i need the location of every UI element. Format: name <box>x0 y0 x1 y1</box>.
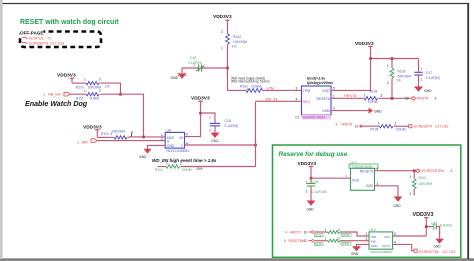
svg-text:2: 2 <box>381 93 383 97</box>
svg-text:10KOHM: 10KOHM <box>112 130 126 134</box>
svg-text:R114: R114 <box>155 168 163 172</box>
svg-text:2: 2 <box>99 89 101 93</box>
svg-text:1UF/16V: 1UF/16V <box>440 223 454 227</box>
svg-text:WDI internal pull-up 51ohm: WDI internal pull-up 51ohm <box>231 80 270 84</box>
wire R109 to U12 INA <box>340 240 369 242</box>
svg-text:U17,U16: U17,U16 <box>435 125 448 129</box>
svg-text:GND: GND <box>394 204 402 208</box>
svg-text:VDD: VDD <box>322 89 330 93</box>
svg-text:GND: GND <box>322 109 330 113</box>
wire R105 to ECRESET# <box>394 125 449 129</box>
wire U13 GND to ground <box>375 186 399 197</box>
ground at C42 <box>434 239 445 249</box>
ground at C18 <box>210 133 219 143</box>
pin 5 of U9 <box>333 86 335 90</box>
junction node C18 tap <box>199 112 202 115</box>
svg-text:OUTY: OUTY <box>382 244 390 248</box>
wire HB_EN row to U8 pin1 <box>100 94 166 137</box>
svg-text:GND: GND <box>371 244 379 248</box>
wire tap to C18 <box>201 113 216 123</box>
wire R107 to U9 pin3, net LPM <box>263 86 302 90</box>
svg-text:T2: T2 <box>47 36 51 40</box>
svg-text:VDD3V3: VDD3V3 <box>57 73 76 79</box>
debug reserve box <box>273 145 461 257</box>
svg-text:GND: GND <box>434 245 442 249</box>
svg-text:RESET#: RESET# <box>360 170 373 174</box>
net RESETB# debug input <box>284 239 328 243</box>
supervisor U13 body <box>349 161 379 191</box>
resistor R106 0OHM (horizontal, NC) <box>315 228 352 237</box>
junction node R110/HB_EN row <box>119 93 122 96</box>
svg-text:VDD3V3: VDD3V3 <box>413 212 434 218</box>
svg-text:RESET#: RESET# <box>316 97 330 101</box>
svg-text:10: 10 <box>355 124 359 128</box>
svg-text:2: 2 <box>180 162 182 166</box>
svg-text:V5: V5 <box>179 136 183 140</box>
wire VDD3V3 to R113 <box>97 136 114 138</box>
svg-text:2: 2 <box>451 169 453 173</box>
svg-text:U9: U9 <box>295 116 299 120</box>
svg-text:U17,U16: U17,U16 <box>50 42 64 46</box>
net HRST# debug input <box>286 230 328 234</box>
svg-text:1: 1 <box>166 162 168 166</box>
svg-text:0.1UF/16V: 0.1UF/16V <box>312 190 329 194</box>
power VDD3V3 (debug top) <box>298 161 317 178</box>
capacitor C40 0.1UF/16V (NC) <box>306 178 329 200</box>
wire R106 to U12 INB <box>340 232 369 236</box>
svg-text:1: 1 <box>209 116 211 120</box>
svg-text:U8: U8 <box>167 128 171 132</box>
wire U9 GND pin to ground arrow <box>331 107 369 111</box>
svg-text:VDD3V3: VDD3V3 <box>298 161 317 167</box>
svg-text:R103: R103 <box>398 69 406 73</box>
svg-text:HB_EN: HB_EN <box>48 93 61 97</box>
net WD_EN off-page input <box>77 139 97 145</box>
svg-text:1%: 1% <box>396 79 401 83</box>
svg-text:2: 2 <box>338 228 340 232</box>
svg-text:VCC: VCC <box>384 235 391 239</box>
wire U13 RESET# output <box>375 170 415 172</box>
svg-text:2: 2 <box>421 78 423 82</box>
svg-text:2: 2 <box>338 237 340 241</box>
svg-text:C18: C18 <box>225 119 231 123</box>
svg-text:ECSPO1: ECSPO1 <box>29 36 44 40</box>
resistor R102 10KOHM 1% (vertical) <box>221 30 247 51</box>
svg-text:R109: R109 <box>315 243 322 246</box>
note: watchdog timing above U9 <box>307 77 333 85</box>
svg-text:WD: WD <box>82 140 89 144</box>
svg-text:LPM: LPM <box>267 86 274 90</box>
capacitor C18 0.1UF <box>209 116 238 133</box>
capacitor C17 0.1UF(NC) <box>414 67 439 87</box>
svg-text:GND: GND <box>365 184 373 188</box>
svg-text:0OHM: 0OHM <box>396 128 406 132</box>
wire VDD3V3 to R102 <box>227 23 229 34</box>
wire rail down to U9 VDD pin <box>331 59 371 91</box>
svg-text:2: 2 <box>410 192 412 196</box>
svg-text:2: 2 <box>306 190 308 194</box>
svg-text:INA: INA <box>371 240 376 244</box>
svg-text:1: 1 <box>366 232 368 236</box>
svg-text:U12: U12 <box>370 228 376 232</box>
svg-text:2: 2 <box>346 174 348 178</box>
svg-text:11: 11 <box>304 239 308 243</box>
power VDD3V3 (debug bottom) <box>413 212 434 236</box>
wire WD_EN to U8 pin2 <box>97 140 165 142</box>
svg-text:1%: 1% <box>232 45 237 49</box>
svg-text:RESET with watch dog circuit: RESET with watch dog circuit <box>20 19 119 26</box>
wire R113 to pin1 node with hook <box>128 132 144 138</box>
svg-text:GND: GND <box>424 89 432 93</box>
svg-text:ECRESET#: ECRESET# <box>29 42 48 46</box>
wire VDD3V3 to R110 <box>72 82 86 84</box>
junction node rail at R103 <box>391 57 394 60</box>
svg-text:R113: R113 <box>101 132 109 136</box>
off-page connector box (dashed) <box>20 30 102 48</box>
note: WDI text <box>231 76 270 83</box>
svg-text:0OHM: 0OHM <box>342 234 349 237</box>
title: RESET with watch dog circuit <box>20 19 119 26</box>
net ECSPO1 off-page stub <box>22 36 51 40</box>
svg-text:1: 1 <box>77 140 79 144</box>
wire net WD_IN into U9 pin4 <box>256 97 302 101</box>
svg-text:WD_IN: WD_IN <box>266 97 278 101</box>
svg-text:1: 1 <box>221 47 223 51</box>
wire right power rail <box>371 58 419 60</box>
power VDD3V3 (right rail) <box>355 41 374 59</box>
junction node rail left <box>369 57 372 60</box>
ground arrow at U9 GND <box>369 108 383 114</box>
capacitor C42 1UF/16V (NC) <box>426 222 453 239</box>
svg-text:1%: 1% <box>105 85 110 89</box>
logic gate U12 body <box>366 228 397 249</box>
svg-text:GND: GND <box>351 252 359 256</box>
svg-text:VDD: VDD <box>352 178 360 182</box>
svg-text:0.1UF(N): 0.1UF(N) <box>426 76 440 80</box>
resistor R109 0OHM (horizontal, NC) <box>315 237 352 246</box>
wire R104 to HRST# off-page <box>379 97 411 99</box>
resistor R110 10KOHM 1% (horizontal) <box>76 78 109 90</box>
svg-text:U17,U16: U17,U16 <box>443 250 456 254</box>
svg-text:4: 4 <box>286 230 288 234</box>
resistor R103 10KOHM 1% (vertical, NC) <box>387 59 411 99</box>
svg-text:Enable Watch Dog: Enable Watch Dog <box>25 100 88 108</box>
svg-text:ECRESET#: ECRESET# <box>414 125 432 129</box>
net ECRESET# off-page stub <box>22 42 64 46</box>
svg-text:R105: R105 <box>371 128 379 132</box>
svg-text:INB: INB <box>371 235 376 239</box>
svg-text:3: 3 <box>296 86 298 90</box>
resistor R112 10KOHM (vertical, NC) <box>410 171 433 196</box>
svg-text:1: 1 <box>84 89 86 93</box>
ground at C19 <box>171 68 187 80</box>
svg-text:0.1UF(N): 0.1UF(N) <box>225 124 239 128</box>
svg-text:1: 1 <box>333 94 335 98</box>
U8 part number <box>166 149 191 153</box>
svg-text:2: 2 <box>387 81 389 85</box>
svg-text:R112: R112 <box>419 176 427 180</box>
wire U8 VCC to VDD3V3 rail <box>185 101 201 137</box>
svg-text:3: 3 <box>377 182 379 186</box>
junction node C42 tap <box>425 225 428 228</box>
capacitor C19 0.1UF(NC) <box>182 56 228 72</box>
svg-text:RESETB#: RESETB# <box>288 239 304 243</box>
svg-text:GND: GND <box>211 139 219 143</box>
svg-text:2: 2 <box>99 78 101 82</box>
svg-text:GND: GND <box>139 155 147 159</box>
ground at U12 <box>351 246 361 256</box>
svg-text:1: 1 <box>378 122 380 126</box>
power VDD3V3 (top, feeds R102) <box>213 14 232 24</box>
wire net HRST# to R105 row <box>336 122 380 128</box>
svg-text:C19: C19 <box>190 56 196 60</box>
resistor R104 0OHM (horizontal) <box>364 89 383 104</box>
svg-text:5: 5 <box>186 133 188 137</box>
svg-text:t(delay)>200ms: t(delay)>200ms <box>307 81 333 85</box>
svg-text:C17: C17 <box>426 71 432 75</box>
svg-text:10: 10 <box>405 97 409 101</box>
svg-text:1: 1 <box>387 64 389 68</box>
net HRST# off-page output <box>405 97 437 101</box>
svg-text:4: 4 <box>336 122 338 126</box>
svg-text:4: 4 <box>296 97 298 101</box>
U9 reference and part number <box>295 115 331 120</box>
svg-text:6: 6 <box>284 239 286 243</box>
wire rail to C17 <box>418 59 420 72</box>
svg-text:HRST#: HRST# <box>417 97 429 101</box>
svg-text:R106: R106 <box>315 234 322 237</box>
svg-text:3: 3 <box>366 237 368 241</box>
resistor R105 0OHM (horizontal) <box>371 122 406 132</box>
svg-text:1: 1 <box>364 93 366 97</box>
wire VDD to U13 VDD pin <box>311 174 351 178</box>
junction node at C19 tap <box>226 67 229 70</box>
svg-text:R110: R110 <box>76 85 84 89</box>
svg-text:0OHM: 0OHM <box>368 100 378 104</box>
svg-text:10: 10 <box>304 230 308 234</box>
svg-text:5: 5 <box>333 86 335 90</box>
svg-text:1: 1 <box>421 67 423 71</box>
op-amp U9 watchdog IC body <box>302 86 332 115</box>
svg-text:VDD3V3: VDD3V3 <box>213 14 232 20</box>
ground at C40 <box>307 201 316 212</box>
resistor R107 0OHM (horizontal) <box>240 84 263 92</box>
junction node R103 pull-up on HRST# <box>391 97 394 100</box>
wire VDD to U12 VCC <box>393 235 427 237</box>
svg-text:2: 2 <box>161 137 163 141</box>
power VDD3V3 (left, feeds R110) <box>57 73 76 84</box>
ground at U8 <box>139 149 151 160</box>
svg-text:40%: 40% <box>196 167 203 171</box>
note: WD_EN high event time <box>152 158 217 163</box>
svg-text:R111: R111 <box>76 96 84 100</box>
svg-text:WDI: WDI <box>303 100 310 104</box>
wire HB_EN to R111 <box>70 93 86 95</box>
svg-text:1: 1 <box>410 175 412 179</box>
svg-text:GND: GND <box>167 144 175 148</box>
label: Enable Watch Dog <box>25 100 88 108</box>
svg-text:1: 1 <box>43 93 45 97</box>
wire U8 GND pin to ground <box>148 145 166 148</box>
wire U12 GND to ground <box>357 244 370 246</box>
power VDD3V3 (above U8) <box>191 96 210 106</box>
power VDD3V3 (feeds R113 pull-up) <box>83 124 102 137</box>
svg-text:0OHM: 0OHM <box>182 168 192 172</box>
svg-text:2: 2 <box>221 30 223 34</box>
svg-text:0OHM: 0OHM <box>252 84 262 88</box>
wire R110 to junction on HB_EN row <box>100 83 121 94</box>
svg-text:1: 1 <box>325 237 327 241</box>
junction node VDD/C40 <box>310 177 313 180</box>
svg-text:ECRESETB#: ECRESETB# <box>422 169 445 173</box>
svg-text:HRST#: HRST# <box>341 122 352 126</box>
wire R102 down to node, then to R107 row <box>228 45 247 91</box>
svg-text:2: 2 <box>395 122 397 126</box>
resistor R111 0OHM (horizontal) <box>76 89 101 101</box>
svg-text:GND: GND <box>374 109 382 113</box>
svg-text:WD_EN high event time > 1.6s: WD_EN high event time > 1.6s <box>152 158 217 163</box>
svg-text:ECRESETB#: ECRESETB# <box>419 250 439 254</box>
svg-text:Reserve for debug use: Reserve for debug use <box>279 151 348 158</box>
logic gate U8 body <box>161 128 188 148</box>
svg-text:GND: GND <box>307 208 315 212</box>
svg-text:R102: R102 <box>233 35 241 39</box>
net HB_EN off-page input <box>43 92 70 96</box>
wire vertical WD_IN riser <box>255 101 257 166</box>
net ECRESETB# off-page (debug top) <box>416 169 453 173</box>
svg-text:1: 1 <box>325 228 327 232</box>
svg-text:0OHM: 0OHM <box>90 96 100 100</box>
junction node at U8 pin1 feed <box>142 136 145 139</box>
svg-text:10KOHM: 10KOHM <box>419 182 433 186</box>
svg-text:2: 2 <box>333 107 335 111</box>
U12 part number <box>370 250 394 254</box>
svg-text:5: 5 <box>394 232 396 236</box>
svg-text:HRST#: HRST# <box>290 230 301 234</box>
wire U8 Y output to WD_IN node <box>185 144 256 146</box>
svg-text:1: 1 <box>204 63 206 67</box>
junction node R112 on output <box>413 169 416 172</box>
wire U12 OUTY to ECRESETB# <box>393 244 456 254</box>
svg-text:HRST#: HRST# <box>344 94 357 98</box>
svg-text:10KOHM: 10KOHM <box>233 40 247 44</box>
svg-text:3: 3 <box>435 97 437 101</box>
svg-text:LPM: LPM <box>303 89 310 93</box>
svg-text:0OHM: 0OHM <box>342 243 349 246</box>
svg-text:2: 2 <box>194 63 196 67</box>
svg-text:2: 2 <box>209 129 211 133</box>
resistor R113 10KOHM (horizontal) <box>101 130 127 139</box>
svg-text:OFF-PAGE: OFF-PAGE <box>20 31 43 36</box>
ground at U13 <box>394 197 403 208</box>
svg-text:GND: GND <box>171 76 179 80</box>
wire U9 RESET# output, net HRST# <box>331 94 364 98</box>
svg-text:74LVC1G08DBV: 74LVC1G08DBV <box>370 250 394 254</box>
svg-text:1: 1 <box>84 78 86 82</box>
svg-text:74LVC1G08DBV: 74LVC1G08DBV <box>166 149 191 153</box>
junction node Y line / vertical <box>254 144 257 147</box>
ground at C17 <box>414 87 432 93</box>
svg-text:R104: R104 <box>370 89 378 93</box>
resistor R114 0OHM (NC pull-down row) <box>155 162 256 172</box>
svg-text:SGM803-RN3X: SGM803-RN3X <box>303 116 327 120</box>
